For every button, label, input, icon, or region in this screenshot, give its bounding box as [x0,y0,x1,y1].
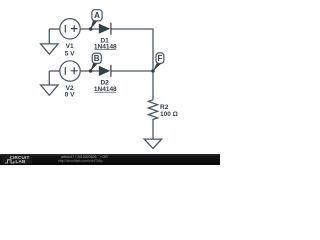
svg-text:B: B [94,54,100,63]
svg-text:100 Ω: 100 Ω [160,111,178,118]
svg-text:0 V: 0 V [65,92,75,99]
svg-text:V1: V1 [66,43,74,50]
svg-text:F: F [158,54,163,63]
svg-text:5 V: 5 V [65,50,75,57]
svg-text:A: A [94,11,100,20]
